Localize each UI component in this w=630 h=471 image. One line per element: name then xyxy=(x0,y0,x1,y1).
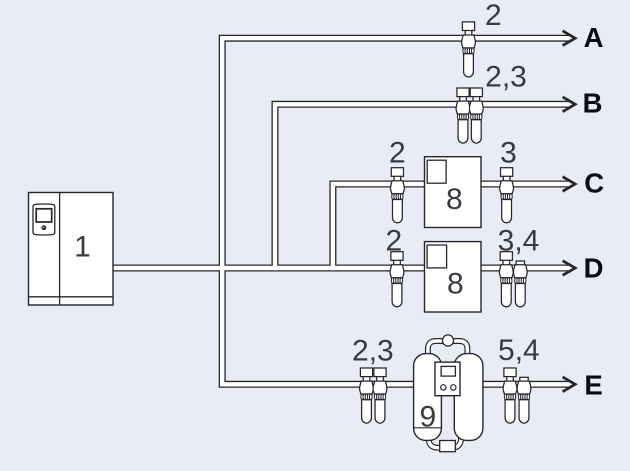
filter 3 on line C xyxy=(500,168,514,223)
node: junction riser A/E with main line xyxy=(220,266,224,270)
wire: riser B white core xyxy=(275,104,569,268)
left tower xyxy=(414,354,442,441)
svg-text:5,4: 5,4 xyxy=(498,334,540,367)
svg-text:2: 2 xyxy=(485,0,502,32)
filters 2,3 on line B xyxy=(456,88,470,143)
refrigerant dryer 8 (line C) xyxy=(425,157,482,228)
refrigerant dryer 8 (line D) xyxy=(425,242,482,312)
wire: riser C white core xyxy=(333,184,569,269)
wire: riser to line A (casing) xyxy=(222,38,569,268)
wire: main line from compressor 1 to outlet D (casing) xyxy=(113,265,569,272)
wire: drop E white core xyxy=(222,267,569,384)
svg-text:8: 8 xyxy=(446,183,463,216)
svg-text:B: B xyxy=(583,88,603,119)
wire: riser to line B (casing) xyxy=(275,104,569,268)
svg-text:8: 8 xyxy=(447,268,464,301)
outlet arrow C xyxy=(563,177,576,192)
svg-text:2,3: 2,3 xyxy=(485,61,527,94)
filters 5,4 on line E xyxy=(503,368,517,423)
svg-text:D: D xyxy=(584,253,604,284)
valve circle on top xyxy=(442,335,453,346)
outlet arrow A xyxy=(563,31,576,46)
filter 2 on line D xyxy=(390,252,404,307)
svg-text:A: A xyxy=(584,22,604,53)
svg-text:9: 9 xyxy=(419,401,436,434)
node: junction riser B with main line xyxy=(273,266,277,270)
right tower xyxy=(454,354,483,441)
wire: riser A white core xyxy=(222,38,569,268)
node: junction riser C with main line xyxy=(331,266,335,270)
outlet arrow D xyxy=(563,261,576,276)
control panel xyxy=(435,362,460,396)
svg-text:2: 2 xyxy=(385,225,402,258)
svg-text:2: 2 xyxy=(389,137,406,170)
filters 3,4 on line D xyxy=(499,252,513,307)
filters 2,3 on line E xyxy=(360,368,374,423)
outlet arrow B xyxy=(563,97,576,112)
svg-text:E: E xyxy=(584,370,602,401)
compressor 1 xyxy=(29,193,114,306)
filter 2 on line C xyxy=(391,168,405,223)
svg-text:1: 1 xyxy=(74,230,91,263)
bottom bridge pipe xyxy=(429,430,461,448)
wire: riser to line C (casing) xyxy=(333,184,569,268)
wire: drop to line E (casing) xyxy=(222,268,569,384)
bottom square valve xyxy=(440,441,456,452)
outlet arrow E xyxy=(563,377,576,392)
svg-text:3,4: 3,4 xyxy=(498,225,540,258)
svg-text:2,3: 2,3 xyxy=(352,335,394,368)
adsorption dryer 9 (line E) xyxy=(414,335,483,452)
wire: main line white core xyxy=(113,266,569,270)
svg-text:C: C xyxy=(584,168,604,199)
filter 2 on line A xyxy=(462,22,476,77)
svg-text:3: 3 xyxy=(500,137,517,170)
top bridge pipe xyxy=(428,341,468,362)
